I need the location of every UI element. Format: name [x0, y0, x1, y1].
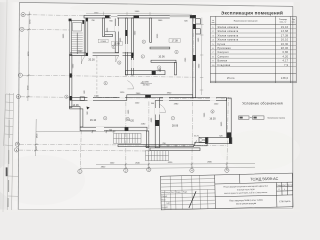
window gaps on top wall [111, 15, 190, 19]
frame right [292, 6, 294, 208]
frame top [19, 2, 292, 6]
closet wall horizontal [70, 53, 133, 56]
pier SE protrusion left [206, 138, 208, 143]
svg-text:7,9: 7,9 [284, 64, 289, 67]
interior wall e horizontal [125, 71, 165, 75]
svg-text:Лист: Лист [171, 192, 175, 194]
door swing arc hall [116, 56, 119, 63]
top wall [84, 15, 196, 18]
axis circle 1 [124, 168, 128, 172]
svg-text:10.06: 10.06 [158, 56, 165, 59]
scattered small dimension texts [63, 11, 224, 145]
svg-text:пом: пом [212, 22, 215, 24]
svg-text:г: г [20, 74, 21, 77]
small box near SE [199, 137, 208, 142]
svg-text:28,06: 28,06 [281, 47, 289, 50]
axis line 4 vertical [227, 97, 228, 168]
signature diagonal stroke [189, 191, 197, 208]
west wall step vertical [80, 109, 83, 127]
pier corridor [152, 71, 156, 75]
pier stair top left [69, 19, 72, 22]
right vertical dimension line [200, 18, 204, 96]
svg-text:16,30: 16,30 [281, 43, 289, 46]
svg-text:4,20: 4,20 [283, 55, 289, 58]
pier top wall corner NE [190, 16, 196, 18]
axis circle Г [18, 73, 22, 77]
main staircase [70, 20, 84, 55]
svg-text:Пров.: Пров. [162, 199, 167, 201]
SE block right wall [227, 98, 232, 138]
axis circle 2 [147, 168, 151, 172]
left signature grid [160, 175, 215, 210]
door leaf diagonal SE [194, 140, 197, 146]
horizontal axis dash-dot lines [19, 15, 231, 151]
paper edge [3, 0, 7, 212]
svg-text:Жилая комната: Жилая комната [218, 39, 239, 42]
svg-text:28.06: 28.06 [172, 124, 179, 127]
svg-text:Жилая комната: Жилая комната [218, 26, 239, 29]
vertical axis dash-dot lines [80, 15, 228, 168]
top dimension line [86, 12, 192, 16]
svg-text:17,38: 17,38 [281, 34, 289, 37]
left vertical dimension line [27, 12, 32, 102]
pier SE right wall [227, 132, 231, 137]
margin strip vertical text [6, 120, 10, 207]
axis line 3 vertical [192, 15, 194, 168]
svg-text:Прихожая: Прихожая [218, 47, 232, 50]
svg-text:При: При [292, 19, 295, 21]
pier west wall 1 [70, 73, 72, 77]
interior wall d horizontal [150, 47, 170, 49]
pier corridor e [132, 53, 134, 58]
table header texts [212, 19, 296, 24]
axis line G [22, 75, 195, 77]
header row labels [161, 190, 188, 208]
pier right wall 2 [193, 55, 196, 61]
svg-text:Кладовая: Кладовая [218, 64, 231, 67]
interior wall a [102, 18, 104, 36]
svg-text:14.06: 14.06 [72, 104, 79, 107]
short axis at x81 [79, 130, 82, 167]
mid wall band west part [70, 97, 127, 100]
elevation mark [141, 82, 153, 87]
pier top wall 2 [134, 16, 140, 18]
axis line V [20, 97, 231, 99]
SE small wall [195, 142, 207, 146]
door gaps [86, 26, 216, 131]
svg-text:Кухня: Кухня [218, 43, 226, 46]
west axis bubbles [14, 13, 25, 152]
pier mid wall 1 [145, 95, 151, 98]
axis circle 0 [78, 169, 82, 173]
exterior stair south-east [146, 151, 169, 161]
second left vertical dim line [34, 119, 38, 156]
svg-text:20.16: 20.16 [88, 58, 95, 61]
svg-text:Кол.уч: Кол.уч [165, 192, 170, 194]
svg-text:19,16: 19,16 [281, 26, 289, 29]
svg-text:35.7к: 35.7к [194, 135, 199, 137]
doc number cell bottom [215, 182, 293, 184]
vertical connector wall [146, 131, 149, 148]
stage cells [276, 185, 293, 192]
svg-text:Листов: Листов [287, 185, 293, 187]
project description [223, 185, 268, 195]
table rows [212, 26, 289, 80]
pier south wall [125, 127, 129, 130]
legend symbol [239, 116, 265, 119]
title block outer frame [160, 173, 293, 210]
svg-text:пом., м²: пом., м² [280, 21, 287, 24]
room axis dashed [96, 56, 98, 97]
svg-text:6.86: 6.86 [145, 145, 150, 148]
svg-text:4.20: 4.20 [129, 119, 134, 122]
dark wall piers [69, 16, 232, 144]
interior wall a2 [105, 35, 113, 37]
svg-text:16.30: 16.30 [209, 117, 216, 120]
interior wall f horizontal [151, 60, 176, 62]
south wall east part [150, 148, 200, 151]
svg-text:Условные обозначения: Условные обозначения [242, 102, 283, 106]
south thin wall west part [118, 145, 194, 147]
stadia grid [276, 186, 292, 188]
axis circle Е [21, 13, 25, 17]
axis line 2 vertical [148, 101, 150, 168]
stair wall to building [86, 18, 88, 56]
svg-text:меч.: меч. [292, 22, 296, 24]
svg-text:Стадия: Стадия [276, 185, 282, 187]
corridor wall east [131, 18, 133, 75]
pilaster 1 [196, 19, 201, 24]
door swing mark [87, 107, 90, 110]
SE protrusion [205, 138, 232, 144]
bottom dimension lines [79, 162, 255, 170]
axis line B [19, 144, 228, 145]
svg-text:СПб Лепта: СПб Лепта [279, 201, 291, 203]
axis line A [19, 149, 150, 152]
sheet name [229, 199, 263, 206]
svg-text:17.38: 17.38 [172, 40, 179, 43]
svg-text:Экспликация помещений: Экспликация помещений [221, 10, 283, 16]
scan shading [294, 0, 301, 212]
SE block left wall [155, 101, 159, 148]
room number bubbles [65, 40, 215, 121]
pier SE protrusion right [229, 138, 232, 143]
svg-text:Санузел: Санузел [218, 51, 230, 54]
bottom axis bubbles [78, 168, 229, 174]
pier top wall 1 [105, 16, 110, 18]
svg-text:138,0: 138,0 [281, 77, 289, 80]
area label 17.38 [169, 39, 181, 43]
right column divider [275, 183, 278, 208]
top wall of SE block [159, 98, 226, 101]
svg-text:№док.: №док. [176, 191, 182, 194]
svg-text:Жилая комната: Жилая комната [218, 34, 239, 37]
svg-text:12.920: 12.920 [143, 85, 150, 87]
pilaster 2 [196, 29, 201, 34]
frame left [18, 2, 19, 209]
door swing arc room 20.16 [81, 55, 85, 64]
door swing arc SE [160, 104, 166, 112]
pier SE left wall [155, 120, 159, 126]
axis circle Д [20, 27, 24, 31]
axis circle Б [15, 142, 19, 146]
svg-text:13,68: 13,68 [281, 30, 289, 33]
interior wall b [115, 18, 118, 53]
pier stair top right [82, 20, 84, 24]
left margin stamp strip [4, 93, 19, 210]
corridor wall west [125, 18, 127, 75]
frame bottom [18, 208, 293, 209]
lower horizontal dim line to stair [36, 130, 116, 133]
right wall [193, 15, 196, 97]
door swing arc corridor [127, 81, 133, 89]
area label 13.68 [111, 42, 122, 46]
mid wall band east part [127, 95, 193, 98]
svg-text:6,86: 6,86 [283, 51, 289, 54]
svg-text:ТСЖД 56/09-АС: ТСЖД 56/09-АС [250, 177, 278, 182]
area label 2.500 [98, 39, 108, 43]
axis circle 4 [225, 168, 229, 172]
interior wall g vertical [175, 62, 177, 75]
axis line E [25, 14, 84, 17]
pier west wall 2 [70, 96, 72, 100]
exterior stair south-west [114, 133, 142, 143]
svg-text:Пробиваемые проемы: Пробиваемые проемы [268, 117, 286, 119]
svg-text:2.500: 2.500 [100, 41, 106, 43]
south wall lower-left room [80, 127, 147, 131]
svg-text:Ванная: Ванная [218, 60, 228, 63]
svg-text:16,10: 16,10 [281, 39, 289, 42]
pier right wall 1 [193, 24, 196, 29]
main vertical divider [214, 175, 217, 209]
svg-text:Н.контр.: Н.контр. [162, 207, 169, 209]
interior wall c [150, 18, 152, 42]
axis circle В [16, 95, 20, 99]
svg-text:Жилая комната: Жилая комната [218, 30, 239, 33]
description cell bottom [215, 195, 276, 196]
svg-text:Наименование помещения: Наименование помещения [234, 21, 258, 23]
west wall step horizontal [70, 107, 81, 109]
svg-text:в жилую часть №36: в жилую часть №36 [237, 188, 255, 191]
svg-text:Итого: Итого [227, 77, 235, 80]
axis line 1 vertical [125, 99, 127, 168]
svg-text:Подп.: Подп. [183, 191, 188, 193]
svg-text:4: 4 [284, 189, 285, 191]
svg-text:16.10: 16.10 [90, 119, 97, 122]
west wall below stair [70, 54, 72, 107]
axis line D [24, 28, 70, 31]
axis circle А [14, 148, 18, 152]
pier corridor w [126, 30, 128, 36]
svg-text:Разраб.: Разраб. [161, 196, 168, 198]
column box on mid wall [80, 97, 84, 101]
svg-text:Санузел: Санузел [218, 55, 230, 58]
svg-text:4,17: 4,17 [283, 60, 289, 63]
axis circle 3 [190, 168, 194, 172]
